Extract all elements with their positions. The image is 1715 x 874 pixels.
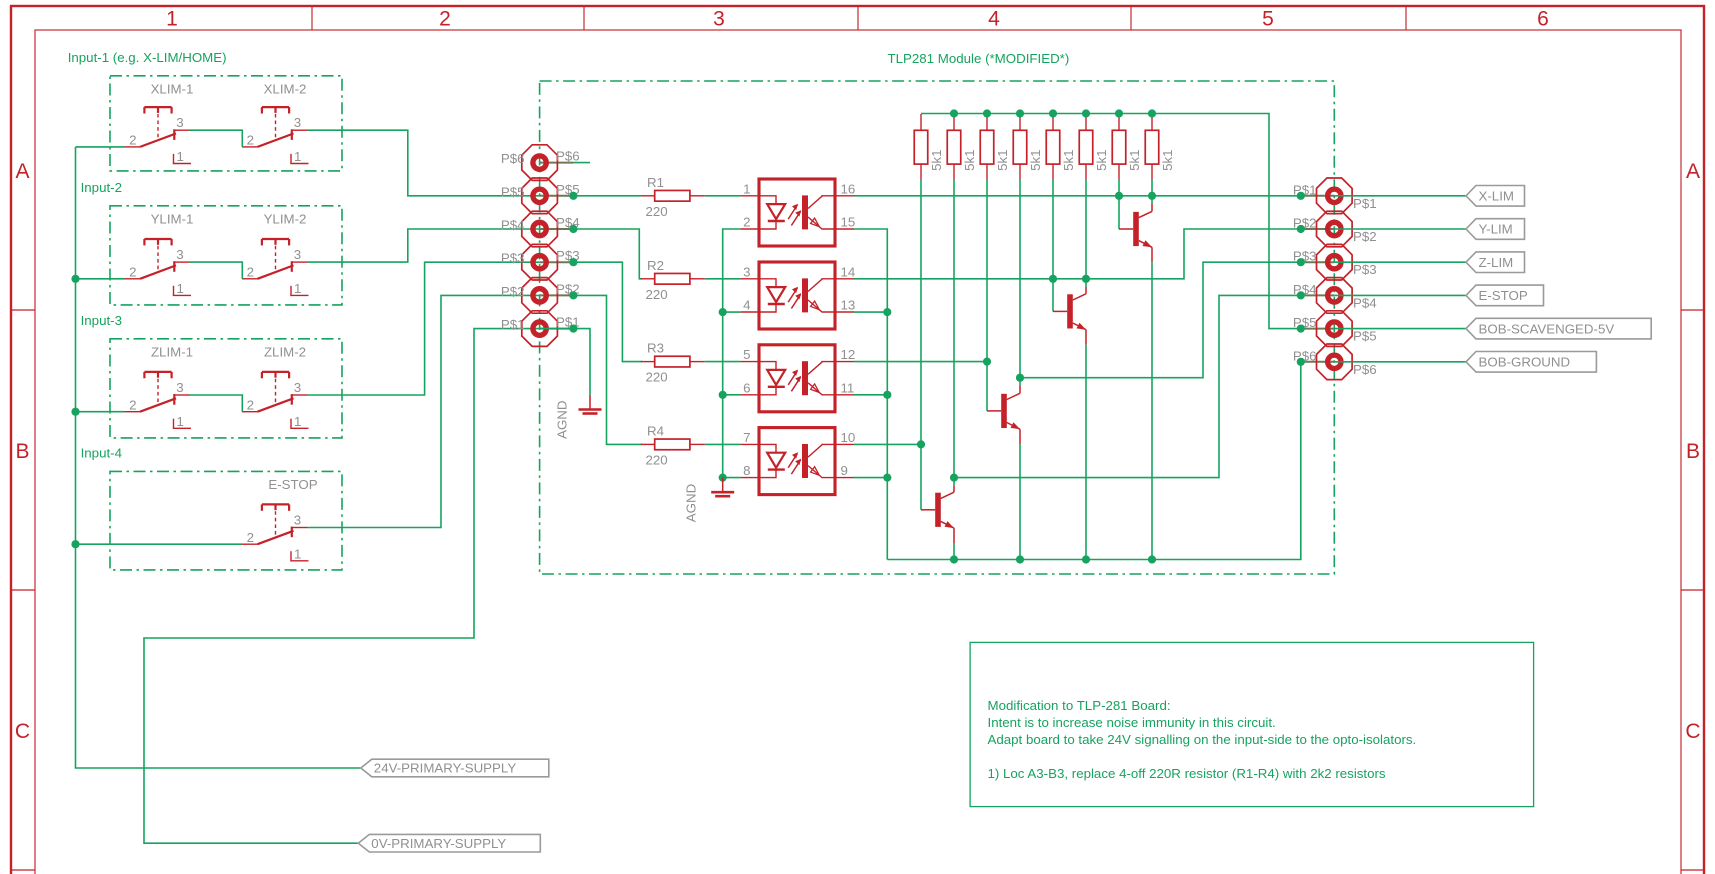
svg-text:Intent is to increase noise im: Intent is to increase noise immunity in … [988,715,1276,730]
net flag 0V-PRIMARY-SUPPLY [358,834,540,852]
transistor Q4 [921,444,954,559]
junction Q3 base [983,358,991,366]
svg-text:1: 1 [166,8,178,31]
svg-text:5k1: 5k1 [995,149,1010,170]
wire ESTOP out to P$2 [308,295,540,527]
svg-text:A: A [15,160,29,183]
label TLP281 Module (*MODIFIED*) [888,51,1070,66]
label YLIM-2 [264,211,307,226]
opto-isolator OK4 pins 7/8/10/9 [741,428,856,495]
junction Q4 emitter at bus [950,555,958,563]
resistor R5 value 5k1 [914,114,944,180]
junction SV1 P$3 [569,258,577,266]
wire Y-LIM net [854,229,1301,279]
svg-text:ZLIM-1: ZLIM-1 [151,344,193,359]
header SV1 pin P$6 [501,145,580,181]
svg-text:P$6: P$6 [501,151,525,166]
junction pin4 [719,308,727,316]
net flag Y-LIM [1334,219,1524,240]
net flag BOB-SCAVENGED-5V [1334,318,1651,339]
svg-text:24V-PRIMARY-SUPPLY: 24V-PRIMARY-SUPPLY [374,761,517,776]
label Input-3 [81,313,122,328]
svg-text:2: 2 [743,215,750,230]
junction pin8 [719,474,727,482]
wire P$5 to R1 [573,195,641,197]
header SV1 pin P$5 [501,178,580,214]
wire YLIM out to P$4 [308,229,540,262]
junction Q3 collector [1016,374,1024,382]
wire R5 lower lead [920,180,922,445]
svg-text:16: 16 [841,181,856,196]
resistor R6 value 5k1 [947,114,977,180]
junction pin11 [883,391,891,399]
junction SV2 P$1 [1297,192,1305,200]
svg-text:0V-PRIMARY-SUPPLY: 0V-PRIMARY-SUPPLY [371,836,506,851]
wire ZLIM out to P$3 [308,262,540,395]
header SV2 pin P$3 [1293,244,1377,280]
wire R7 lower lead [986,180,988,362]
svg-text:P$2: P$2 [1353,229,1377,244]
svg-text:5: 5 [1262,8,1274,31]
wire bus to switch row 3 [76,411,125,413]
svg-text:5k1: 5k1 [1160,149,1175,170]
wire R11 lower lead [1118,180,1120,196]
svg-text:XLIM-2: XLIM-2 [264,81,307,96]
svg-text:5k1: 5k1 [1061,149,1076,170]
switch XLIM-2 [242,107,309,164]
junction Q1 collector [1148,192,1156,200]
net flag X-LIM [1334,186,1524,207]
junction bus R6 [950,109,958,117]
wire R8 lower lead [1019,180,1021,378]
svg-text:2: 2 [129,265,136,280]
net flag Z-LIM [1334,252,1524,273]
svg-text:2: 2 [129,133,136,148]
junction bus R11 [1115,109,1123,117]
svg-text:6: 6 [1537,8,1549,31]
svg-text:5k1: 5k1 [1127,149,1142,170]
svg-text:1: 1 [294,546,301,561]
wire Z-LIM net collector side [1020,262,1301,378]
junction bus-ESTOP [71,540,79,548]
label Input-4 [81,445,122,460]
wire R1 to opto pin1 [705,195,741,197]
svg-text:3: 3 [176,380,183,395]
svg-text:5k1: 5k1 [962,149,977,170]
junction SV2 P$4 [1297,291,1305,299]
junction bus-YLIM [71,275,79,283]
junction SV1 P$5 [569,192,577,200]
resistor R10 value 5k1 [1079,114,1109,180]
opto-isolator OK2 pins 3/4/14/13 [741,262,856,329]
svg-text:8: 8 [743,463,750,478]
wire E-STOP net collector side [954,295,1301,477]
junction bus R8 [1016,109,1024,117]
wire bus to switch row 1 [76,146,125,148]
wire XLIM out to P$5 [308,130,540,196]
switch YLIM-1 [125,239,192,296]
wire R6 lower lead [953,180,955,478]
resistor R2 value 220 [641,258,705,302]
resistor R8 value 5k1 [1013,114,1043,180]
wire X-LIM net [854,195,1301,197]
wire R2 to opto pin3 [705,278,741,280]
junction SV2 P$6 [1297,358,1305,366]
svg-text:3: 3 [713,8,725,31]
svg-text:ZLIM-2: ZLIM-2 [264,344,306,359]
frame row labels A B C [15,160,1701,743]
label Input-2 [81,180,122,195]
svg-text:5k1: 5k1 [1028,149,1043,170]
junction SV1 P$1 [569,325,577,333]
resistor R1 value 220 [641,175,705,219]
svg-text:2: 2 [129,398,136,413]
junction SV1 P$4 [569,225,577,233]
net flag BOB-GROUND [1334,352,1596,373]
svg-text:P$4: P$4 [1353,295,1377,310]
svg-text:B: B [15,440,29,463]
svg-text:P$2: P$2 [501,284,525,299]
ground AGND (left) [554,395,601,439]
svg-text:3: 3 [176,247,183,262]
svg-text:Modification to TLP-281 Board:: Modification to TLP-281 Board: [988,698,1171,713]
svg-text:P$3: P$3 [501,251,525,266]
svg-text:P$1: P$1 [501,317,525,332]
junction bus R7 [983,109,991,117]
svg-text:1) Loc A3-B3, replace 4-off 22: 1) Loc A3-B3, replace 4-off 220R resisto… [988,766,1386,781]
svg-text:4: 4 [743,298,750,313]
svg-text:9: 9 [841,463,848,478]
resistor R4 value 220 [641,423,705,467]
wire P$1 to 0V supply [144,329,540,844]
net flag 24V-PRIMARY-SUPPLY [361,759,549,777]
header SV2 pin P$5 [1293,311,1377,347]
svg-text:220: 220 [646,370,668,385]
junction SV2 P$2 [1297,225,1305,233]
svg-text:15: 15 [841,215,856,230]
svg-text:5k1: 5k1 [1094,149,1109,170]
svg-text:Input-4: Input-4 [81,445,122,460]
dashed box Input-2 [110,206,342,305]
svg-text:220: 220 [646,452,668,467]
dashed box Input-3 [110,339,342,438]
svg-text:E-STOP: E-STOP [268,477,317,492]
junction Q2 collector [1082,275,1090,283]
svg-text:1: 1 [294,281,301,296]
header SV1 pin P$1 [501,311,580,347]
svg-text:R1: R1 [647,175,664,190]
wire opto pin2-4-6-8 chain [723,229,741,478]
wire R3 to opto pin5 [705,361,741,363]
svg-text:BOB-SCAVENGED-5V: BOB-SCAVENGED-5V [1479,321,1615,336]
wire P$2 to R4 [573,295,642,444]
wire 5V top bus [921,114,1301,329]
opto-isolator OK1 pins 1/2/16/15 [741,179,856,246]
svg-text:3: 3 [294,512,301,527]
svg-text:220: 220 [646,204,668,219]
resistor R12 value 5k1 [1145,114,1175,180]
wire R12 lower lead [1151,180,1153,196]
dashed box TLP281 module [540,81,1335,574]
svg-text:Z-LIM: Z-LIM [1479,255,1514,270]
frame column labels 1-6 [166,8,1549,31]
junction Q1 base [1115,192,1123,200]
svg-text:P$6: P$6 [556,149,580,164]
label XLIM-2 [264,81,307,96]
junction Q4 base [917,440,925,448]
svg-text:1: 1 [177,149,184,164]
svg-text:P$6: P$6 [1353,362,1377,377]
junction bus R10 [1082,109,1090,117]
opto-isolator OK3 pins 5/6/12/11 [741,345,856,412]
junction Q3 emitter at bus [1016,555,1024,563]
label Input-1 [68,50,227,65]
junction bus-ZLIM [71,408,79,416]
svg-text:R3: R3 [647,341,664,356]
svg-text:Y-LIM: Y-LIM [1479,222,1513,237]
svg-text:6: 6 [743,380,750,395]
svg-text:5k1: 5k1 [929,149,944,170]
wire bus to switch row 4 [76,543,243,545]
switch YLIM-2 [242,239,309,296]
wire opto emitter chain pins 15-13-11-9 [854,229,887,560]
header SV1 pin P$3 [501,244,580,280]
ground AGND (opto) [683,478,734,523]
svg-text:TLP281 Module (*MODIFIED*): TLP281 Module (*MODIFIED*) [888,51,1070,66]
svg-text:Input-3: Input-3 [81,313,122,328]
wire P$1 to AGND [540,329,590,395]
wire Z-LIM net opto side [854,361,987,363]
wire ground bottom bus [887,362,1301,560]
svg-text:1: 1 [177,414,184,429]
svg-text:13: 13 [841,298,856,313]
svg-text:YLIM-2: YLIM-2 [264,211,307,226]
svg-text:P$4: P$4 [501,218,525,233]
svg-text:X-LIM: X-LIM [1479,189,1514,204]
header SV2 pin P$4 [1293,278,1377,314]
wire bus to switch row 2 [76,278,125,280]
svg-text:C: C [1685,720,1700,743]
switch ZLIM-1 [125,372,192,429]
switch ZLIM-2 [242,372,309,429]
wire P$3 to R3 [573,262,642,361]
dashed box Input-1 [110,76,342,171]
label YLIM-1 [151,211,194,226]
wire R9 lower lead [1052,180,1054,279]
svg-text:2: 2 [247,398,254,413]
header SV2 pin P$2 [1293,211,1377,247]
junction SV2 P$3 [1297,258,1305,266]
svg-text:3: 3 [176,115,183,130]
header SV2 pin P$6 [1293,344,1377,380]
svg-text:BOB-GROUND: BOB-GROUND [1479,355,1571,370]
label ZLIM-1 [151,344,193,359]
svg-text:P$5: P$5 [501,184,525,199]
wire R10 lower lead [1085,180,1087,279]
wire P$6 stub [573,162,590,164]
transistor Q1 [1119,196,1152,560]
svg-text:3: 3 [294,247,301,262]
svg-text:2: 2 [247,265,254,280]
wire between switches row 1 [190,130,242,147]
svg-text:C: C [15,720,30,743]
svg-text:220: 220 [646,287,668,302]
svg-text:E-STOP: E-STOP [1479,288,1528,303]
svg-text:B: B [1686,440,1700,463]
transistor Q3 [987,362,1020,560]
resistor R3 value 220 [641,341,705,385]
junction bus R12 [1148,109,1156,117]
svg-text:P$1: P$1 [1353,196,1377,211]
svg-text:AGND: AGND [554,400,569,438]
svg-text:Input-2: Input-2 [81,180,122,195]
junction bus R9 [1049,109,1057,117]
svg-text:R4: R4 [647,423,664,438]
junction SV1 P$2 [569,291,577,299]
junction SV2 P$5 [1297,325,1305,333]
svg-text:12: 12 [841,347,856,362]
junction pin13 [883,308,891,316]
switch XLIM-1 [125,107,192,164]
svg-text:AGND: AGND [683,484,698,522]
junction Q2 emitter at bus [1082,555,1090,563]
dashed box Input-4 [110,471,342,570]
svg-text:2: 2 [247,530,254,545]
header SV2 pin P$1 [1293,178,1377,214]
wire between switches row 3 [190,395,242,412]
junction Q2 base [1049,275,1057,283]
net flag E-STOP [1334,285,1543,306]
svg-text:P$3: P$3 [1353,262,1377,277]
svg-text:A: A [1686,160,1700,183]
svg-text:P$5: P$5 [1353,329,1377,344]
svg-text:7: 7 [743,430,750,445]
label E-STOP switch [268,477,317,492]
svg-text:5: 5 [743,347,750,362]
svg-text:10: 10 [841,430,856,445]
header SV1 pin P$2 [501,278,580,314]
svg-text:R2: R2 [647,258,664,273]
svg-text:XLIM-1: XLIM-1 [151,81,194,96]
wire between switches row 2 [190,262,242,279]
switch E-STOP [242,504,309,561]
wire E-STOP net opto side [854,443,921,445]
resistor R9 value 5k1 [1046,114,1076,180]
header SV1 pin P$4 [501,211,580,247]
wire R4 to opto pin7 [705,443,741,445]
svg-text:1: 1 [294,414,301,429]
junction Q1 emitter at bus [1148,555,1156,563]
svg-text:YLIM-1: YLIM-1 [151,211,194,226]
svg-text:4: 4 [988,8,1000,31]
svg-text:14: 14 [841,264,856,279]
svg-text:3: 3 [294,380,301,395]
svg-text:Input-1 (e.g. X-LIM/HOME): Input-1 (e.g. X-LIM/HOME) [68,50,227,65]
junction Q4 collector [950,474,958,482]
resistor R7 value 5k1 [980,114,1010,180]
junction pin6 [719,391,727,399]
svg-text:3: 3 [743,264,750,279]
svg-text:1: 1 [294,149,301,164]
resistor R11 value 5k1 [1112,114,1142,180]
svg-text:2: 2 [439,8,451,31]
label XLIM-1 [151,81,194,96]
svg-text:1: 1 [177,281,184,296]
wire 24V vertical bus [76,147,361,768]
svg-text:Adapt board to take 24V signal: Adapt board to take 24V signalling on th… [988,732,1417,747]
note box [970,642,1534,806]
svg-text:1: 1 [743,181,750,196]
svg-text:11: 11 [841,380,855,395]
wire P$4 to R2 [573,229,642,279]
label ZLIM-2 [264,344,306,359]
transistor Q2 [1053,279,1086,560]
svg-text:3: 3 [294,115,301,130]
svg-text:2: 2 [247,133,254,148]
junction pin9 [883,474,891,482]
